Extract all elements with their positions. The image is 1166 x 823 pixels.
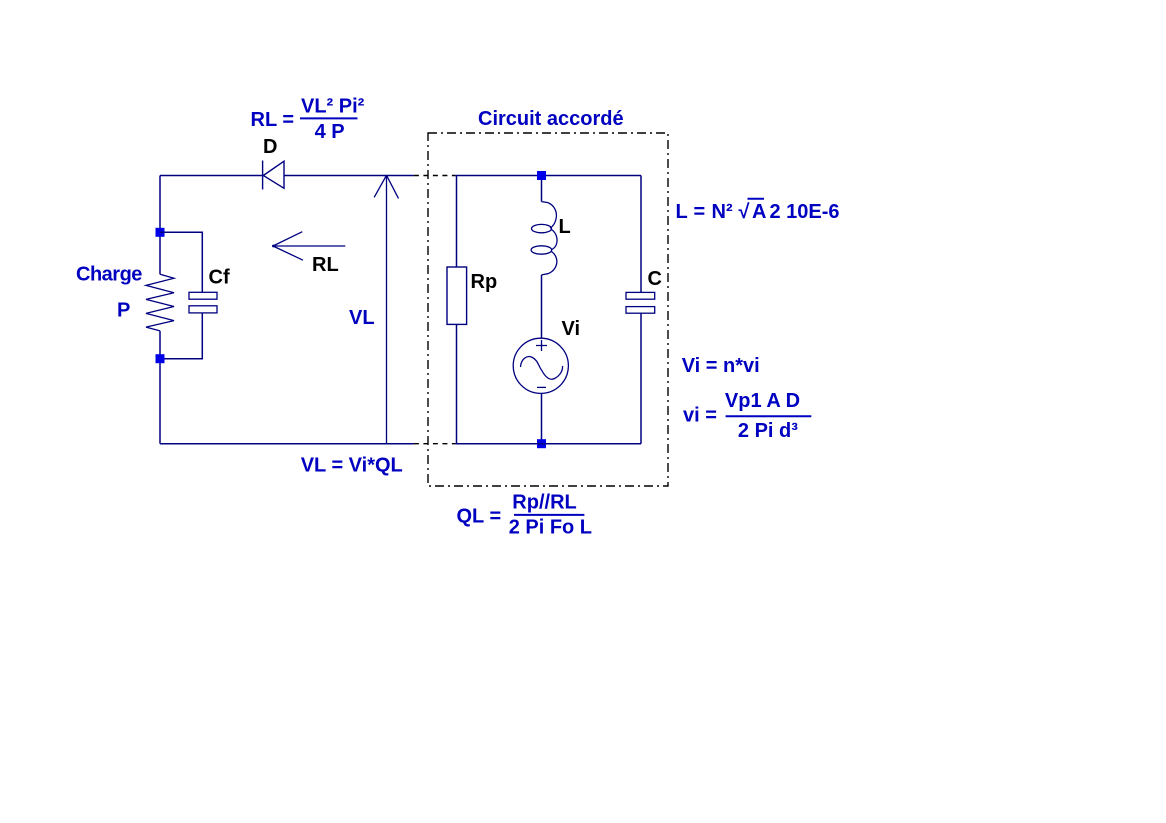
wire top middle <box>284 175 414 177</box>
svg-text:VL = Vi*QL: VL = Vi*QL <box>301 455 403 477</box>
svg-text:D: D <box>263 136 277 158</box>
svg-text:Circuit accordé: Circuit accordé <box>478 108 624 130</box>
svg-text:L=N²√A2 10E-6: L=N²√A2 10E-6 <box>676 201 840 223</box>
svg-text:RL: RL <box>312 254 339 276</box>
inner left wire upper <box>455 176 641 268</box>
svg-text:RL =: RL = <box>251 109 295 131</box>
svg-text:Rp: Rp <box>471 271 498 293</box>
AC source Vi <box>513 338 568 393</box>
diode D <box>263 161 284 190</box>
svg-text:VL: VL <box>349 307 375 329</box>
svg-text:VL² Pi²: VL² Pi² <box>301 95 365 117</box>
svg-text:Vi = n*vi: Vi = n*vi <box>682 355 760 377</box>
wire left vertical upper <box>159 176 161 275</box>
svg-text:2 Pi d³: 2 Pi d³ <box>738 420 798 442</box>
wire top-left horizontal <box>160 175 263 177</box>
capacitor Cf <box>189 292 217 313</box>
svg-text:QL =: QL = <box>457 505 502 527</box>
svg-text:2 Pi Fo L: 2 Pi Fo L <box>509 517 592 539</box>
wire Cf branch bottom <box>165 313 203 359</box>
wire Cf branch top <box>160 232 202 292</box>
svg-text:Cf: Cf <box>209 267 230 289</box>
capacitor C <box>626 292 655 313</box>
arrow RL (pointing left) <box>273 232 345 261</box>
wire top dashed crossing <box>414 175 456 177</box>
inner right wire lower <box>640 313 642 444</box>
svg-text:L: L <box>559 216 571 238</box>
inner right wire upper <box>640 176 642 293</box>
inductor L (coil) <box>531 202 557 275</box>
node square inner bottom <box>537 439 546 448</box>
wire left vertical lower <box>159 331 161 444</box>
svg-text:vi =: vi = <box>683 404 717 426</box>
wire source to bottom node <box>541 393 543 443</box>
node square top-left <box>156 228 165 237</box>
wire inductor to source <box>541 275 543 338</box>
inner bottom wire <box>455 443 641 445</box>
svg-text:Charge: Charge <box>76 264 142 286</box>
svg-text:Vp1 A D: Vp1 A D <box>725 390 800 412</box>
inner left wire lower <box>456 324 458 443</box>
svg-text:P: P <box>117 300 130 322</box>
svg-text:C: C <box>648 268 662 290</box>
resistor Rp <box>447 267 467 324</box>
wire bottom dashed crossing <box>414 443 456 445</box>
svg-text:Rp//RL: Rp//RL <box>512 491 576 513</box>
wire bottom-left horizontal <box>160 443 414 445</box>
wire from top node to inductor <box>541 180 543 202</box>
node square bottom-left <box>156 354 165 363</box>
node square inner top <box>537 171 546 180</box>
svg-text:Vi: Vi <box>562 318 581 340</box>
svg-text:4 P: 4 P <box>315 121 345 143</box>
arrow VL (vertical) <box>374 175 398 443</box>
dash-dot boundary box "Circuit accordé" <box>428 133 668 486</box>
resistor Charge P (zigzag) <box>146 274 174 331</box>
